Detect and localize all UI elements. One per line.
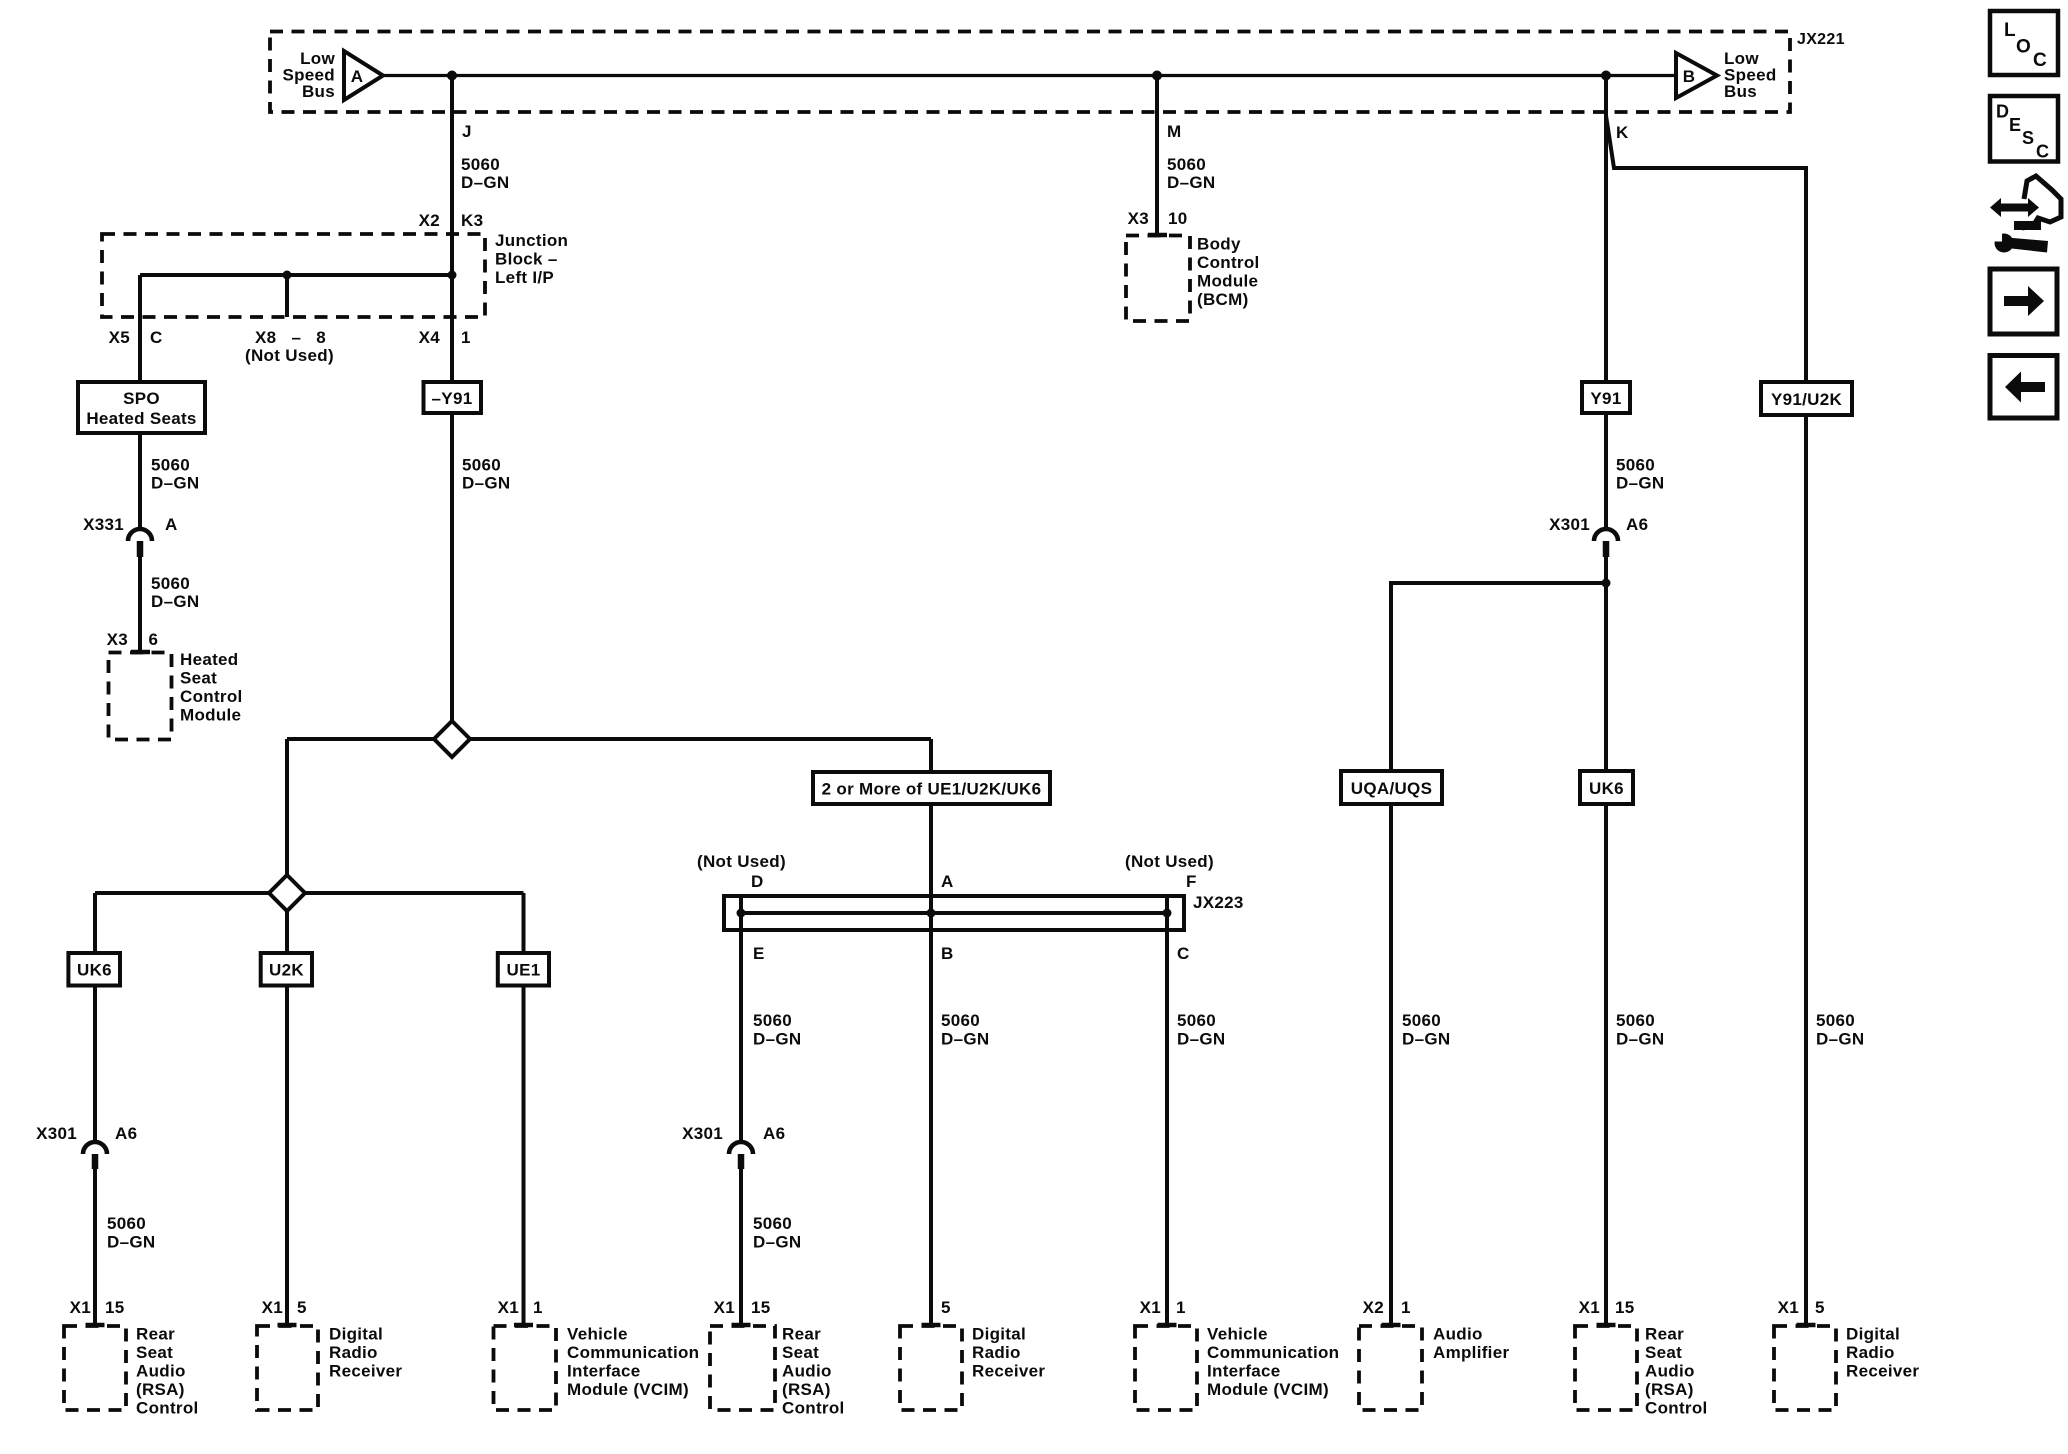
- terminal tick (rear seat audio RSA control connector 1): [86, 1323, 105, 1328]
- svg-text:X3: X3: [1128, 209, 1149, 228]
- option box 2 or More of UE1/U2K/UK6: [813, 772, 1050, 804]
- wire below SPO: [138, 433, 142, 528]
- svg-text:X301: X301: [36, 1124, 77, 1143]
- svg-text:E: E: [2009, 115, 2021, 135]
- svg-text:X1: X1: [1579, 1298, 1600, 1317]
- svg-text:2 or More of UE1/U2K/UK6: 2 or More of UE1/U2K/UK6: [822, 780, 1042, 799]
- svg-text:X331: X331: [83, 515, 124, 534]
- svg-text:1: 1: [1176, 1298, 1186, 1317]
- inline connector X301 bar (E column): [738, 1154, 745, 1169]
- svg-text:A: A: [351, 67, 364, 86]
- svg-text:6: 6: [149, 630, 159, 649]
- wire splice horizontal row 1: [287, 737, 931, 741]
- wire stub F-C through JX223: [1165, 896, 1169, 930]
- wire stub X8-8: [285, 275, 289, 317]
- svg-text:(Not Used): (Not Used): [697, 852, 786, 871]
- svg-text:5: 5: [297, 1298, 307, 1317]
- junction dot at J: [447, 71, 457, 81]
- svg-text:X1: X1: [714, 1298, 735, 1317]
- svg-text:M: M: [1167, 122, 1181, 141]
- wire JX223 internal bus: [741, 911, 1167, 915]
- wire B column down: [929, 930, 933, 1325]
- inline connector X301 arc (E column): [729, 1142, 753, 1154]
- terminal tick (digital radio receiver connector 2): [922, 1323, 941, 1328]
- wire J column through junction block to -Y91: [450, 275, 454, 382]
- svg-text:(Not Used): (Not Used): [1125, 852, 1214, 871]
- module box (audio amplifier connector): [1359, 1326, 1422, 1410]
- svg-text:X3: X3: [107, 630, 128, 649]
- wire inside junction block horizontal: [140, 273, 452, 277]
- junction dot J column: [448, 271, 457, 280]
- module box Heated Seat Control Module: [109, 653, 172, 740]
- svg-text:A: A: [941, 872, 954, 891]
- wire J column from bus to junction block: [450, 76, 454, 383]
- svg-text:A6: A6: [1626, 515, 1648, 534]
- svg-text:B: B: [1683, 67, 1696, 86]
- wire low speed bus horizontal: [383, 74, 1676, 77]
- junction dot X8 stub: [283, 271, 292, 280]
- svg-text:B: B: [941, 944, 954, 963]
- inline connector X301 arc (Y91 column): [1594, 529, 1618, 541]
- svg-text:–Y91: –Y91: [432, 389, 473, 408]
- svg-text:O: O: [2016, 37, 2031, 58]
- bus arrow A: [344, 51, 383, 100]
- option box UE1: [498, 953, 549, 986]
- svg-text:C: C: [150, 328, 163, 347]
- svg-text:K: K: [1616, 123, 1629, 142]
- module box (digital radio receiver connector 1): [257, 1326, 318, 1410]
- wire from 2-or-more box to JX223: [929, 804, 933, 896]
- svg-text:JX223: JX223: [1193, 893, 1244, 912]
- module box (digital radio receiver connector 3): [1774, 1326, 1836, 1410]
- svg-text:X301: X301: [1549, 515, 1590, 534]
- terminal tick heated seat control module: [131, 650, 150, 655]
- wire right drop to 2-or-more box: [929, 739, 933, 772]
- svg-text:A6: A6: [763, 1124, 785, 1143]
- terminal tick BCM: [1148, 233, 1167, 238]
- terminal tick (rear seat audio RSA control connector 3): [1597, 1323, 1616, 1328]
- wire K branch to Y91/U2K column: [1606, 116, 1806, 383]
- svg-text:C: C: [2036, 142, 2049, 162]
- wire below Y91: [1604, 413, 1608, 528]
- module box Body Control Module: [1126, 236, 1190, 322]
- module box (digital radio receiver connector 2): [900, 1326, 962, 1410]
- svg-text:5: 5: [941, 1298, 951, 1317]
- svg-text:F: F: [1186, 872, 1197, 891]
- svg-text:S: S: [2022, 128, 2034, 148]
- wire below UQA/UQS: [1389, 804, 1393, 1325]
- svg-text:Heated Seats: Heated Seats: [86, 409, 196, 428]
- wire A-B through JX223: [929, 896, 933, 930]
- option box UQA/UQS: [1341, 771, 1442, 804]
- icon back arrow box: [1990, 356, 2057, 419]
- icon LOC box: [1990, 11, 2058, 75]
- wire UE1 drop: [522, 893, 526, 953]
- bus arrow B: [1676, 53, 1717, 98]
- junction dot JX223 pin E: [737, 909, 746, 918]
- terminal tick (digital radio receiver connector 1): [278, 1323, 297, 1328]
- svg-text:D: D: [1996, 102, 2009, 122]
- svg-text:U2K: U2K: [269, 961, 304, 980]
- wire below X331: [138, 557, 142, 652]
- option box SPO Heated Seats: [78, 382, 205, 433]
- svg-text:C: C: [1177, 944, 1190, 963]
- wire M column from bus to BCM: [1155, 76, 1159, 234]
- svg-text:Y91/U2K: Y91/U2K: [1771, 390, 1843, 409]
- option box Y91: [1582, 382, 1630, 413]
- splice diamond 2: [269, 875, 305, 911]
- svg-text:X8 – 8: X8 – 8: [255, 328, 326, 347]
- svg-text:HeatedSeatControlModule: HeatedSeatControlModule: [180, 650, 243, 725]
- wire below UK6 (Y91 column): [1604, 804, 1608, 1325]
- wire C column down: [1165, 930, 1169, 1325]
- icon diagnostic wrench with arrows: [1990, 176, 2061, 253]
- svg-text:X1: X1: [1778, 1298, 1799, 1317]
- wire below UE1: [522, 986, 526, 1326]
- terminal tick (VCIM connector 1): [514, 1323, 533, 1328]
- svg-text:X1: X1: [1140, 1298, 1161, 1317]
- svg-text:L: L: [2004, 20, 2016, 41]
- svg-text:X301: X301: [682, 1124, 723, 1143]
- junction dot UQA branch: [1602, 579, 1611, 588]
- option box UK6 (Y91 column): [1580, 771, 1633, 804]
- wire left drop to second splice: [285, 739, 289, 895]
- svg-text:JX221: JX221: [1797, 31, 1845, 48]
- wire K column from bus to Y91: [1604, 76, 1608, 383]
- option box UK6 (left): [68, 953, 120, 986]
- wire UQA/UQS branch: [1391, 583, 1606, 771]
- wire below U2K: [285, 986, 289, 1326]
- icon forward arrow box: [1990, 269, 2057, 334]
- svg-text:X2: X2: [1363, 1298, 1384, 1317]
- wire below X301 (UK6 left column): [93, 1169, 97, 1325]
- junction block left I/P dashed box: [102, 234, 485, 317]
- svg-text:X2: X2: [419, 211, 440, 230]
- junction dot JX223 pin C: [1163, 909, 1172, 918]
- option box Y91/U2K: [1761, 382, 1852, 415]
- svg-text:UQA/UQS: UQA/UQS: [1351, 779, 1432, 798]
- option box U2K: [261, 953, 312, 986]
- wire below X301 (E column): [739, 1169, 743, 1325]
- icon DESC box: [1990, 96, 2058, 162]
- option box -Y91: [424, 382, 482, 413]
- svg-text:1: 1: [533, 1298, 543, 1317]
- svg-text:15: 15: [751, 1298, 771, 1317]
- module box (rear seat audio RSA control connector 1): [64, 1326, 126, 1410]
- wire Y91/U2K column down: [1804, 415, 1808, 1325]
- module box (VCIM connector 1): [494, 1326, 557, 1410]
- svg-text:UK6: UK6: [1589, 779, 1624, 798]
- module box (rear seat audio RSA control connector 2): [710, 1326, 775, 1410]
- wire J column below -Y91 to splice diamond: [450, 413, 454, 730]
- inline connector X331 arc: [128, 529, 152, 541]
- wire E column down: [739, 930, 743, 1141]
- inline connector X301 bar (Y91 column): [1603, 541, 1610, 557]
- connector JX223 body: [724, 896, 1184, 930]
- junction dot at K: [1601, 71, 1611, 81]
- svg-text:(Not Used): (Not Used): [245, 346, 334, 365]
- svg-text:UE1: UE1: [507, 961, 541, 980]
- splice diamond 1: [434, 721, 470, 757]
- svg-text:Y91: Y91: [1590, 389, 1621, 408]
- svg-text:X1: X1: [262, 1298, 283, 1317]
- wire X5 column down to SPO: [138, 275, 142, 382]
- wire stub D-E through JX223: [739, 896, 743, 930]
- terminal tick (rear seat audio RSA control connector 2): [732, 1323, 751, 1328]
- wire below UK6 left: [93, 986, 97, 1142]
- svg-text:5: 5: [1815, 1298, 1825, 1317]
- terminal tick (digital radio receiver connector 3): [1797, 1323, 1816, 1328]
- terminal tick (VCIM connector 2): [1158, 1323, 1177, 1328]
- svg-text:X1: X1: [498, 1298, 519, 1317]
- module box (rear seat audio RSA control connector 3): [1575, 1326, 1637, 1410]
- svg-text:C: C: [2033, 50, 2047, 71]
- svg-text:X5: X5: [109, 328, 130, 347]
- svg-text:J: J: [462, 122, 472, 141]
- inline connector X331 bar: [137, 541, 144, 557]
- wire splice horizontal row 2: [95, 891, 524, 895]
- svg-text:A6: A6: [115, 1124, 137, 1143]
- inline connector X301 bar (UK6 left column): [92, 1154, 99, 1169]
- junction dot JX223 pin B: [927, 909, 936, 918]
- svg-text:1: 1: [1401, 1298, 1411, 1317]
- wire U2K drop through diamond: [285, 893, 289, 953]
- svg-text:K3: K3: [461, 211, 483, 230]
- module box (VCIM connector 2): [1135, 1326, 1197, 1410]
- svg-text:UK6: UK6: [77, 961, 112, 980]
- svg-text:SPO: SPO: [123, 389, 160, 408]
- inline connector X301 arc (UK6 left column): [83, 1142, 107, 1154]
- svg-text:A: A: [165, 515, 178, 534]
- terminal tick (audio amplifier connector): [1382, 1323, 1401, 1328]
- junction dot at M: [1152, 71, 1162, 81]
- svg-text:15: 15: [1615, 1298, 1635, 1317]
- svg-text:1: 1: [461, 328, 471, 347]
- connector JX221 dashed box: [270, 32, 1790, 113]
- wire Y91 column down to UK6: [1604, 557, 1608, 771]
- svg-text:15: 15: [105, 1298, 125, 1317]
- svg-text:D: D: [751, 872, 764, 891]
- svg-text:10: 10: [1168, 209, 1188, 228]
- svg-text:X1: X1: [70, 1298, 91, 1317]
- svg-text:E: E: [753, 944, 765, 963]
- wire UK6 drop: [93, 893, 97, 953]
- svg-text:X4: X4: [419, 328, 441, 347]
